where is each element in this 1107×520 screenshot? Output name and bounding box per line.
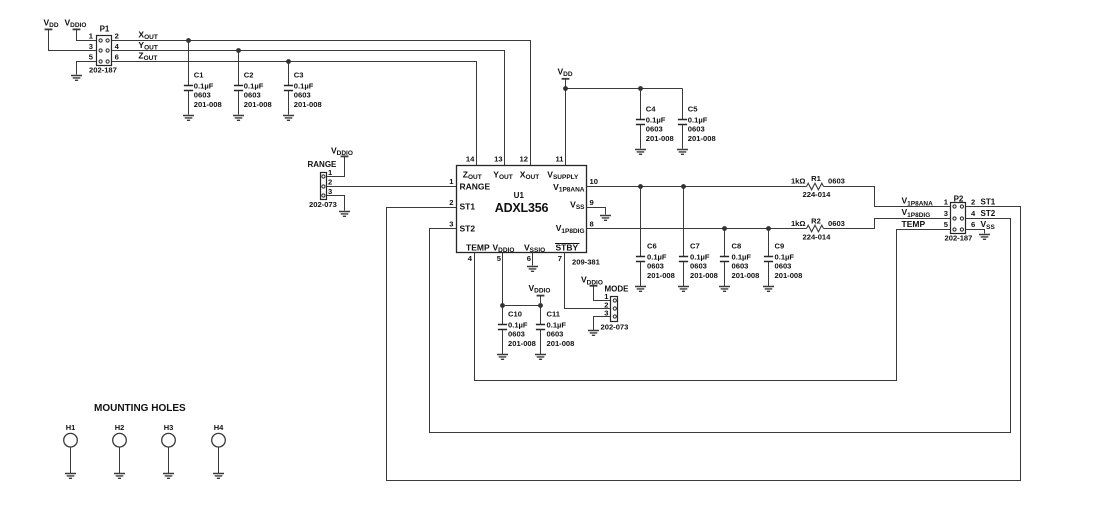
svg-text:202-187: 202-187 xyxy=(89,66,117,75)
svg-text:0603: 0603 xyxy=(828,177,845,186)
svg-text:6: 6 xyxy=(527,254,531,263)
svg-text:0.1µF: 0.1µF xyxy=(647,253,667,262)
svg-text:ST2: ST2 xyxy=(460,223,476,233)
svg-text:C6: C6 xyxy=(647,242,657,251)
svg-text:8: 8 xyxy=(590,220,594,229)
svg-text:0.1µF: 0.1µF xyxy=(547,321,567,330)
svg-text:1kΩ: 1kΩ xyxy=(791,177,806,186)
svg-text:H3: H3 xyxy=(164,423,174,432)
svg-text:C8: C8 xyxy=(732,242,742,251)
svg-text:R2: R2 xyxy=(811,216,821,225)
svg-text:C11: C11 xyxy=(547,310,561,319)
svg-text:0603: 0603 xyxy=(547,330,564,339)
svg-text:202-073: 202-073 xyxy=(601,323,629,332)
svg-text:U1: U1 xyxy=(514,191,525,200)
svg-text:ST1: ST1 xyxy=(460,202,476,212)
svg-text:C7: C7 xyxy=(690,242,700,251)
svg-text:0.1µF: 0.1µF xyxy=(194,82,214,91)
svg-text:TEMP: TEMP xyxy=(466,242,490,252)
svg-text:6: 6 xyxy=(971,220,975,229)
svg-text:3: 3 xyxy=(449,220,453,229)
svg-text:ADXL356: ADXL356 xyxy=(495,201,549,215)
svg-text:201-008: 201-008 xyxy=(508,339,536,348)
svg-text:6: 6 xyxy=(115,52,119,61)
svg-text:P2: P2 xyxy=(954,194,964,203)
svg-text:0603: 0603 xyxy=(646,125,663,134)
svg-text:202-187: 202-187 xyxy=(945,233,973,242)
svg-text:202-073: 202-073 xyxy=(309,200,337,209)
svg-text:1kΩ: 1kΩ xyxy=(791,219,806,228)
svg-text:3: 3 xyxy=(328,187,332,196)
svg-text:2: 2 xyxy=(971,197,975,206)
svg-text:0603: 0603 xyxy=(690,262,707,271)
svg-text:201-008: 201-008 xyxy=(690,271,718,280)
svg-text:0603: 0603 xyxy=(194,91,211,100)
svg-text:0.1µF: 0.1µF xyxy=(732,253,752,262)
svg-text:C9: C9 xyxy=(775,242,785,251)
svg-text:201-008: 201-008 xyxy=(547,339,575,348)
svg-text:11: 11 xyxy=(555,154,564,163)
svg-text:201-008: 201-008 xyxy=(244,100,272,109)
svg-text:0.1µF: 0.1µF xyxy=(775,253,795,262)
svg-text:0603: 0603 xyxy=(294,91,311,100)
svg-text:3: 3 xyxy=(89,42,93,51)
svg-text:RANGE: RANGE xyxy=(460,181,491,191)
svg-text:0.1µF: 0.1µF xyxy=(690,253,710,262)
svg-text:0.1µF: 0.1µF xyxy=(508,321,528,330)
svg-text:ST1: ST1 xyxy=(981,197,996,206)
svg-text:0603: 0603 xyxy=(828,219,845,228)
svg-text:0.1µF: 0.1µF xyxy=(688,116,708,125)
svg-text:MOUNTING HOLES: MOUNTING HOLES xyxy=(94,403,186,414)
svg-text:7: 7 xyxy=(558,254,562,263)
svg-text:C4: C4 xyxy=(646,105,656,114)
svg-text:201-008: 201-008 xyxy=(688,134,716,143)
svg-text:0.1µF: 0.1µF xyxy=(646,116,666,125)
svg-text:201-008: 201-008 xyxy=(646,134,674,143)
svg-text:209-381: 209-381 xyxy=(572,258,601,267)
svg-text:0603: 0603 xyxy=(688,125,705,134)
svg-text:2: 2 xyxy=(328,178,332,187)
svg-text:C1: C1 xyxy=(194,71,204,80)
svg-text:H4: H4 xyxy=(214,423,224,432)
svg-text:201-008: 201-008 xyxy=(647,271,675,280)
svg-text:RANGE: RANGE xyxy=(308,160,338,169)
svg-text:H2: H2 xyxy=(115,423,125,432)
svg-text:TEMP: TEMP xyxy=(902,219,926,229)
svg-text:2: 2 xyxy=(449,198,453,207)
svg-text:13: 13 xyxy=(494,154,502,163)
svg-text:3: 3 xyxy=(604,308,608,317)
svg-text:0603: 0603 xyxy=(647,262,664,271)
svg-text:201-008: 201-008 xyxy=(194,100,222,109)
svg-text:224-014: 224-014 xyxy=(803,190,832,199)
svg-text:10: 10 xyxy=(590,177,598,186)
svg-text:C5: C5 xyxy=(688,105,698,114)
svg-text:3: 3 xyxy=(944,209,948,218)
svg-text:ST2: ST2 xyxy=(981,209,996,218)
svg-text:0603: 0603 xyxy=(244,91,261,100)
svg-text:C3: C3 xyxy=(294,71,304,80)
svg-text:H1: H1 xyxy=(66,423,76,432)
svg-text:P1: P1 xyxy=(100,25,110,34)
svg-text:0.1µF: 0.1µF xyxy=(244,82,264,91)
svg-text:201-008: 201-008 xyxy=(294,100,322,109)
svg-text:0603: 0603 xyxy=(775,262,792,271)
svg-text:C2: C2 xyxy=(244,71,254,80)
svg-text:201-008: 201-008 xyxy=(775,271,803,280)
svg-text:C10: C10 xyxy=(508,310,522,319)
svg-text:201-008: 201-008 xyxy=(732,271,760,280)
svg-text:14: 14 xyxy=(466,154,475,163)
svg-text:0603: 0603 xyxy=(508,330,525,339)
svg-text:0603: 0603 xyxy=(732,262,749,271)
svg-text:9: 9 xyxy=(590,198,594,207)
svg-text:2: 2 xyxy=(115,31,119,40)
svg-text:224-014: 224-014 xyxy=(803,232,832,241)
svg-text:R1: R1 xyxy=(811,174,821,183)
svg-text:12: 12 xyxy=(520,154,528,163)
svg-text:0.1µF: 0.1µF xyxy=(294,82,314,91)
